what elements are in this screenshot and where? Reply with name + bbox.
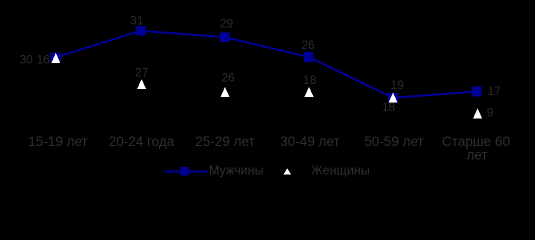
svg-text:25-29 лет: 25-29 лет	[195, 134, 254, 149]
svg-text:26: 26	[301, 38, 315, 52]
svg-text:лет: лет	[466, 147, 487, 162]
svg-text:Мужчины: Мужчины	[209, 164, 264, 178]
svg-text:31: 31	[130, 13, 144, 27]
svg-text:18: 18	[303, 73, 317, 87]
svg-text:30-49 лет: 30-49 лет	[280, 134, 339, 149]
svg-text:Женщины: Женщины	[311, 164, 369, 178]
svg-text:30: 30	[20, 53, 34, 67]
svg-text:17: 17	[488, 84, 502, 98]
svg-text:18: 18	[382, 100, 396, 114]
svg-text:16: 16	[37, 53, 51, 67]
svg-text:15-19 лет: 15-19 лет	[28, 134, 87, 149]
svg-text:27: 27	[135, 65, 149, 79]
svg-text:29: 29	[220, 16, 234, 30]
svg-text:20-24 года: 20-24 года	[109, 134, 175, 149]
svg-text:19: 19	[391, 78, 405, 92]
svg-text:50-59 лет: 50-59 лет	[364, 134, 423, 149]
svg-text:9: 9	[487, 105, 494, 119]
svg-text:26: 26	[221, 71, 235, 85]
